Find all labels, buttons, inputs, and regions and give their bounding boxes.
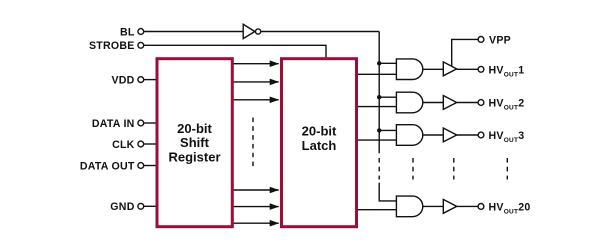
svg-text:DATA IN: DATA IN xyxy=(92,118,135,130)
wire BL vertical to bottom gate xyxy=(379,183,396,201)
svg-text:BL: BL xyxy=(120,26,135,38)
buffer B3 xyxy=(443,128,456,142)
wire DATA IN stub xyxy=(144,122,157,124)
wire buffer20 to HVOUT20 pad xyxy=(457,205,479,207)
wire gate3 top input xyxy=(379,129,396,131)
terminal VPP xyxy=(478,37,484,43)
and-gate G2 xyxy=(396,92,422,113)
terminal HVOUT1 xyxy=(478,66,484,72)
wire SR to latch arrow 3 xyxy=(233,99,279,101)
wire SR to latch arrow 4 xyxy=(233,189,279,191)
wire latch to gate 2 xyxy=(357,106,396,108)
wire BL vertical dashed continuation xyxy=(378,158,380,180)
terminal DATA OUT xyxy=(138,163,144,169)
svg-text:DATA OUT: DATA OUT xyxy=(80,160,135,172)
terminal HVOUT3 xyxy=(478,132,484,138)
wire dashed continuation between blocks xyxy=(252,118,254,170)
buffer B20 xyxy=(443,199,456,213)
wire SR to latch arrow 6 xyxy=(233,222,279,224)
inverter U1 bubble xyxy=(256,29,261,34)
svg-text:HVOUT3: HVOUT3 xyxy=(489,130,525,144)
inverter U1 on BL xyxy=(243,24,255,38)
wire latch to gate 20 xyxy=(357,209,396,211)
wire BL inverter output to vertical xyxy=(261,31,379,33)
wire VPP to buffer1 supply xyxy=(452,39,479,66)
wire BL vertical bus xyxy=(378,32,380,154)
wire buffer2 to HVOUT2 pad xyxy=(457,102,479,104)
terminal HVOUT20 xyxy=(478,204,484,210)
and-gate G20 xyxy=(396,196,422,217)
wire VDD stub xyxy=(144,79,157,81)
buffer B1 xyxy=(443,62,456,76)
wire gate2 output xyxy=(423,102,443,104)
svg-text:20-bit: 20-bit xyxy=(302,124,337,139)
wire gate3 output xyxy=(423,134,443,136)
buffer B2 xyxy=(443,96,456,110)
wire dashed continuation gates column xyxy=(412,158,414,180)
terminal HVOUT2 xyxy=(478,100,484,106)
wire DATA OUT stub xyxy=(144,165,157,167)
svg-text:GND: GND xyxy=(110,201,134,213)
wire GND stub xyxy=(144,205,157,207)
wire SR to latch arrow 2 xyxy=(233,81,279,83)
wire dashed continuation outputs column xyxy=(506,158,508,180)
svg-text:20-bit: 20-bit xyxy=(177,121,212,136)
and-gate G1 xyxy=(396,59,422,80)
and-gate G3 xyxy=(396,125,422,146)
junction dot node BL/G2 xyxy=(377,95,381,99)
block 20-bit Shift Register xyxy=(157,59,232,227)
svg-text:Latch: Latch xyxy=(302,138,337,153)
wire gate1 output xyxy=(423,68,443,70)
svg-text:Register: Register xyxy=(168,149,220,164)
wire latch to gate 1 xyxy=(357,73,396,75)
wire buffer1 to HVOUT1 pad xyxy=(457,68,479,70)
svg-text:HVOUT1: HVOUT1 xyxy=(489,64,525,78)
wire SR to latch arrow 5 xyxy=(233,206,279,208)
terminal VDD xyxy=(138,77,144,83)
junction dot node BL/G1 xyxy=(377,61,381,65)
terminal BL xyxy=(138,29,144,35)
block 20-bit Latch xyxy=(282,59,357,227)
terminal CLK xyxy=(138,141,144,147)
wire STROBE xyxy=(144,45,326,57)
wire BL horizontal to inverter xyxy=(144,31,244,33)
wire gate2 top input xyxy=(379,96,396,98)
svg-text:STROBE: STROBE xyxy=(89,40,135,52)
junction dot node BL/G3 xyxy=(377,128,381,132)
svg-text:VDD: VDD xyxy=(111,74,134,86)
wire SR to latch arrow 1 xyxy=(233,63,279,65)
wire buffer3 to HVOUT3 pad xyxy=(457,134,479,136)
wire gate20 output xyxy=(423,205,443,207)
svg-text:VPP: VPP xyxy=(489,34,511,46)
svg-text:HVOUT20: HVOUT20 xyxy=(489,201,531,215)
wire dashed continuation buffers column xyxy=(453,158,455,180)
svg-text:Shift: Shift xyxy=(180,135,210,150)
terminal DATA IN xyxy=(138,120,144,126)
wire latch to gate 3 xyxy=(357,139,396,141)
wire gate1 top input xyxy=(379,62,396,64)
wire CLK stub xyxy=(144,143,157,145)
terminal STROBE xyxy=(138,42,144,48)
svg-text:HVOUT2: HVOUT2 xyxy=(489,98,525,112)
svg-text:CLK: CLK xyxy=(112,139,135,151)
terminal GND xyxy=(138,203,144,209)
